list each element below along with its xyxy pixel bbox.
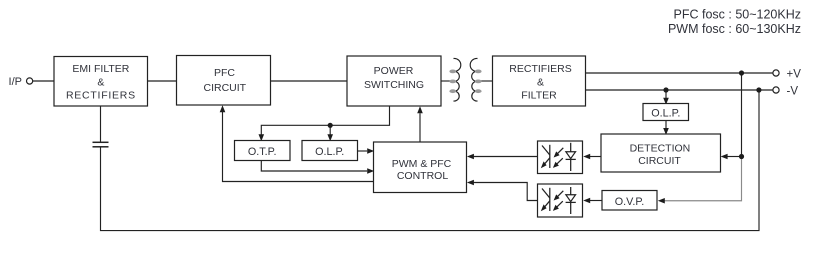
- svg-text:&: &: [537, 77, 544, 89]
- svg-text:PFC fosc : 50~120KHz: PFC fosc : 50~120KHz: [674, 7, 802, 21]
- svg-text:CIRCUIT: CIRCUIT: [204, 82, 247, 94]
- svg-text:CIRCUIT: CIRCUIT: [638, 155, 681, 167]
- svg-text:RECTIFIERS: RECTIFIERS: [66, 90, 136, 102]
- svg-text:PWM & PFC: PWM & PFC: [392, 158, 452, 170]
- svg-text:O.V.P.: O.V.P.: [615, 196, 644, 208]
- svg-text:DETECTION: DETECTION: [630, 143, 691, 155]
- svg-text:RECTIFIERS: RECTIFIERS: [509, 63, 571, 75]
- svg-text:POWER: POWER: [374, 65, 414, 77]
- svg-text:+V: +V: [787, 69, 802, 81]
- svg-text:FILTER: FILTER: [521, 90, 557, 102]
- svg-text:PFC: PFC: [214, 67, 235, 79]
- svg-text:&: &: [97, 77, 104, 89]
- svg-text:SWITCHING: SWITCHING: [364, 79, 424, 91]
- svg-text:O.L.P.: O.L.P.: [315, 146, 344, 158]
- svg-text:O.L.P.: O.L.P.: [651, 107, 680, 119]
- svg-text:-V: -V: [787, 86, 799, 98]
- svg-text:CONTROL: CONTROL: [397, 170, 448, 182]
- svg-text:EMI FILTER: EMI FILTER: [72, 63, 129, 75]
- svg-text:O.T.P.: O.T.P.: [248, 146, 277, 158]
- svg-text:PWM fosc : 60~130KHz: PWM fosc : 60~130KHz: [668, 22, 801, 36]
- svg-text:I/P: I/P: [9, 76, 22, 88]
